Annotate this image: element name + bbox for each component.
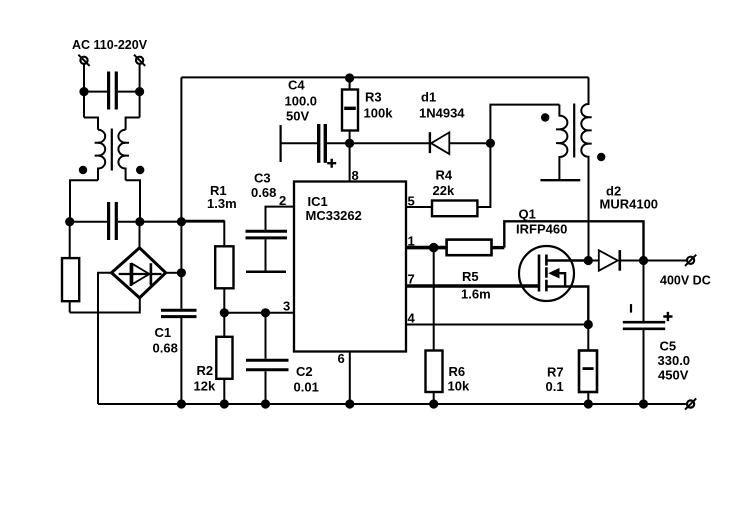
svg-text:2: 2 [279, 193, 286, 208]
junction bus C5 [640, 400, 647, 407]
capacitor C3 [246, 231, 288, 270]
T1 phase dot left [542, 114, 548, 120]
svg-text:MUR4100: MUR4100 [600, 197, 659, 212]
bridge inner diode triangle [132, 264, 149, 284]
wire fuse bottom to bridge AC2 [70, 298, 140, 313]
resistor R6 [426, 351, 443, 405]
transformer T1 core [573, 104, 575, 158]
svg-text:0.1: 0.1 [546, 379, 564, 394]
op-amp/controller IC1 MC33262 box [294, 182, 406, 352]
junction bridge DC+ on main rail [178, 269, 185, 276]
capacitor C1 [161, 310, 197, 316]
wire choke right out, down to lower cap row [126, 180, 140, 222]
wire R5 to feedback loop corner (thick) [492, 246, 505, 249]
top rail wire [181, 76, 588, 78]
wire output node down to C5 [643, 261, 645, 322]
C3 bottom end bar [246, 271, 286, 274]
diode d1 triangle [431, 132, 449, 154]
svg-text:450V: 450V [658, 368, 689, 383]
junction bus R6 [430, 400, 437, 407]
Q1 arrow tail [557, 273, 565, 286]
choke right winding cusp ticks [123, 143, 129, 156]
common-mode choke right winding [118, 130, 125, 180]
junction at right AC / cap X1 [136, 88, 143, 95]
wire step left into choke [84, 118, 98, 130]
stray tick mark [630, 304, 632, 313]
T1 secondary bottom end bar [540, 179, 580, 181]
svg-text:1.3m: 1.3m [207, 196, 237, 211]
choke core [111, 129, 113, 171]
transformer T1 primary winding (right) [581, 77, 588, 260]
T1 left winding cusp ticks [556, 129, 563, 143]
svg-text:C5: C5 [660, 339, 677, 354]
wire drain to d2 [588, 260, 599, 262]
wire step right into choke [126, 118, 140, 130]
junction R3 top rail [346, 74, 353, 81]
bridge inner diode cathode bar [150, 263, 153, 285]
wire node C4/R3/d1/pin8 [350, 142, 429, 144]
svg-text:4: 4 [408, 311, 416, 326]
choke phase dot left [80, 167, 86, 173]
Q1 gate bar [538, 255, 541, 292]
wire pin6 to bus [349, 352, 351, 405]
bridge inner diode line [119, 273, 162, 275]
wire junction down to R4 [477, 143, 490, 207]
wire bridge DC+ to main rail [166, 272, 182, 274]
svg-text:0.01: 0.01 [294, 380, 319, 395]
junction pin1/R6 [430, 244, 438, 252]
wire junction up to T1 secondary top [490, 105, 559, 144]
junction R1/R2/pin3 [221, 309, 228, 316]
svg-text:R6: R6 [449, 364, 466, 379]
svg-text:R3: R3 [365, 90, 382, 105]
wire rail to R1 top (thick) [181, 220, 224, 223]
junction output node [640, 257, 647, 264]
junction lower cap row left [66, 218, 73, 225]
svg-text:100.0: 100.0 [285, 94, 318, 109]
svg-text:C4: C4 [288, 78, 305, 93]
svg-text:400V DC: 400V DC [660, 274, 711, 288]
terminal DC return [685, 398, 696, 409]
resistor R3 [342, 78, 358, 143]
wire pin7 gate drive (thick) [406, 284, 540, 288]
resistor R1 [215, 221, 233, 313]
wire pin2 to C3 [266, 207, 295, 230]
wire R4 to pin5 [406, 206, 432, 208]
common-mode choke left winding [98, 130, 105, 180]
wire from terminal L down to filter cap node [83, 64, 85, 118]
svg-text:3: 3 [283, 299, 290, 314]
svg-text:IC1: IC1 [308, 194, 328, 209]
wire d1 anode to junction [449, 142, 490, 144]
junction d1/R4/T1 [487, 140, 494, 147]
svg-text:MC33262: MC33262 [306, 208, 362, 223]
junction lower cap row at DC rail [178, 218, 185, 225]
capacitor C5 [623, 322, 665, 404]
terminal AC input N [134, 55, 145, 66]
wire from terminal N down to filter cap node [139, 64, 141, 118]
wire pin4 row [406, 324, 588, 326]
svg-text:0.68: 0.68 [251, 185, 276, 200]
svg-text:10k: 10k [448, 379, 470, 394]
transformer T1 secondary winding (left) [559, 105, 567, 180]
resistor R4 [432, 201, 477, 217]
Q1 body arrow [548, 268, 559, 279]
wire R6 branch from pin1 junction [433, 248, 435, 351]
diode d2 cathode bar [618, 250, 621, 271]
svg-text:C3: C3 [254, 171, 271, 186]
wire output node to terminal [644, 260, 687, 262]
T1 phase dot right [598, 154, 604, 160]
capacitor X1 (line filter, top) [84, 72, 140, 110]
Q1 drain wire [546, 259, 588, 262]
junction bus R7 [585, 400, 592, 407]
svg-text:R4: R4 [436, 168, 453, 183]
bridge inner diode anode bar [130, 263, 133, 286]
svg-text:R2: R2 [197, 363, 214, 378]
bottom bus wire [98, 403, 686, 405]
svg-text:IRFP460: IRFP460 [516, 222, 567, 237]
junction pin8 node [346, 140, 353, 147]
wire cap row middle segment [140, 221, 182, 223]
junction bus pin6 [346, 400, 353, 407]
svg-text:50V: 50V [286, 109, 309, 124]
wire pin1 (thick) to R5 [406, 246, 447, 250]
inrush limiting resistor (left, unlabeled) [62, 222, 79, 313]
C5 plus sign [663, 312, 672, 321]
bridge rectifier diamond [112, 248, 166, 298]
wire pin8 [349, 143, 351, 181]
choke phase dot right [137, 167, 143, 173]
wire bridge DC- to bottom bus [98, 273, 112, 404]
junction bus C1 [178, 400, 185, 407]
diode d1 cathode bar [429, 132, 431, 153]
wire bridge AC1 to cap row [139, 222, 141, 248]
C4 plus sign [327, 159, 336, 168]
junction bus R2 [221, 400, 228, 407]
svg-text:22k: 22k [433, 183, 455, 198]
svg-text:5: 5 [408, 194, 415, 209]
choke left winding cusp ticks [95, 143, 101, 156]
resistor R7 [579, 325, 597, 405]
resistor R2 [216, 313, 232, 404]
Q1 channel bar dashes [545, 255, 548, 292]
terminal 400V DC + [685, 255, 696, 266]
svg-text:R5: R5 [462, 269, 479, 284]
svg-text:C1: C1 [155, 325, 172, 340]
terminal AC input L [78, 55, 89, 66]
svg-text:12k: 12k [194, 379, 216, 394]
capacitor C4 end bar [280, 125, 282, 162]
svg-text:d1: d1 [421, 90, 436, 105]
diode d2 triangle [599, 250, 618, 270]
svg-text:AC 110-220V: AC 110-220V [72, 38, 148, 52]
capacitor C2 [246, 313, 289, 404]
wire feedback loop up and across to output [504, 221, 643, 260]
Q1 source wire [546, 287, 588, 325]
junction at left AC / cap X1 [80, 88, 87, 95]
junction bus C2 [262, 400, 269, 407]
svg-text:C2: C2 [296, 364, 313, 379]
junction lower cap row mid [136, 218, 143, 225]
junction pin4/source [585, 321, 592, 328]
transistor Q1 circle [519, 246, 574, 301]
capacitor C4 [281, 124, 350, 163]
svg-text:6: 6 [338, 351, 345, 366]
capacitor X2 (line filter, bottom) [70, 202, 140, 240]
svg-text:R7: R7 [547, 365, 564, 380]
svg-text:Q1: Q1 [519, 207, 536, 222]
svg-text:100k: 100k [364, 106, 394, 121]
wire pin3 row [224, 312, 294, 314]
junction C2 top on pin3 row [262, 309, 269, 316]
resistor R5 [447, 240, 492, 256]
svg-text:1.6m: 1.6m [461, 287, 491, 302]
wire choke left out, down to lower cap row [70, 180, 98, 222]
svg-text:8: 8 [352, 168, 359, 183]
main DC rail vertical (left) [180, 77, 182, 404]
svg-text:330.0: 330.0 [658, 353, 691, 368]
T1 right winding cusp ticks [585, 117, 592, 143]
junction drain/d2/T1 [585, 257, 592, 264]
svg-text:0.68: 0.68 [153, 341, 178, 356]
wire d2 to output node [620, 260, 644, 262]
svg-text:1N4934: 1N4934 [419, 106, 465, 121]
